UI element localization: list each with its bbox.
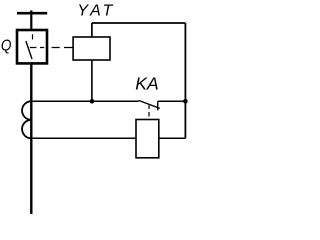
svg-text:KA: KA [135,74,158,94]
main feeder vertical wire [30,63,32,214]
wire coil to right vertical [159,137,186,139]
current transformer secondary winding [22,101,31,138]
breaker fixed contact dash [32,34,34,39]
circuit breaker Q box [17,30,47,63]
wire KA contact to right vertical [158,100,186,102]
KA contact fixed terminal [157,101,159,110]
svg-text:Q: Q [1,38,12,55]
svg-text:YAT: YAT [77,3,115,20]
wire top horizontal [92,22,185,24]
wire middle horizontal [31,100,138,102]
wire busbar to breaker [30,10,32,30]
KA contact blade [139,100,160,108]
node junction dot right [183,99,188,104]
wire YAT top stem [91,23,93,37]
wire CT top to KA circuit [31,137,136,139]
mechanical link Q to YAT (dashed) [30,47,73,49]
wire YAT bottom stem [91,60,93,101]
breaker blade [26,41,32,59]
busbar [17,12,47,15]
trip coil YAT [73,37,110,60]
current relay coil KA [136,120,159,158]
node junction dot left [90,99,95,104]
mechanical link KA contact to coil (dashed) [148,105,150,119]
wire right vertical [184,23,186,138]
